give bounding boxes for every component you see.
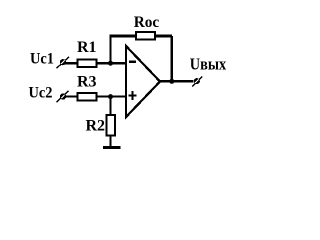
input terminal Uc2 [56, 91, 68, 102]
wire feedback top horizontal [109, 35, 171, 38]
svg-text:R1: R1 [77, 39, 97, 56]
wire Uc1 terminal to R1 [65, 62, 78, 64]
junction output node [169, 79, 174, 84]
resistor Roc [136, 32, 155, 40]
resistor R3 [78, 93, 97, 101]
wire feedback right vertical [171, 36, 173, 81]
svg-text:Uвых: Uвых [190, 55, 227, 74]
output terminal Uvyh [192, 76, 202, 86]
resistor R1 [78, 59, 97, 67]
wire R2 to ground [109, 136, 111, 147]
junction node B (non-inverting input) [108, 94, 113, 99]
svg-text:Uc2: Uc2 [29, 84, 53, 101]
ground [103, 146, 121, 149]
wire Uc2 terminal to R3 [64, 95, 78, 97]
junction node A (inverting input) [108, 61, 113, 66]
svg-text:Rос: Rос [134, 14, 160, 31]
wire R1 to op-amp inverting input [97, 62, 127, 64]
svg-text:R3: R3 [77, 73, 97, 90]
resistor R2 [106, 115, 115, 136]
svg-text:R2: R2 [86, 117, 106, 134]
wire junction B down to R2 [109, 97, 111, 115]
op-amp U1 [126, 46, 160, 117]
wire op-amp output to terminal [159, 80, 194, 82]
svg-text:Uc1: Uc1 [30, 50, 54, 67]
wire R3 to op-amp non-inverting input [97, 95, 127, 97]
input terminal Uc1 [57, 57, 69, 68]
wire feedback left vertical [109, 36, 111, 63]
